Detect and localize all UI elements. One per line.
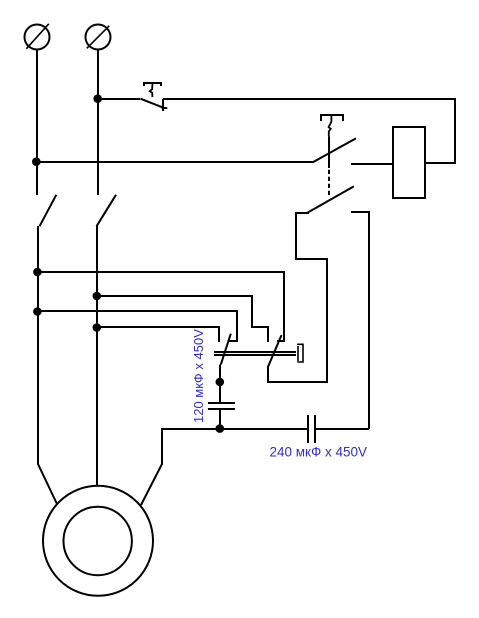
pushbutton SB2 actuator (stop button) [321,115,343,168]
node dot C1 bottom [216,424,225,433]
changeover switch SA1 blade pole 1 [221,334,231,365]
wire coil left to stop button [351,163,393,165]
feed line 1 to changeover right contact pole 2 [37,272,284,341]
feed line 4 to changeover left contact pole 1 [97,327,219,342]
main switch QS1 blade pole A [40,195,57,227]
terminal XS2 (circle with slash, phase B) [86,25,111,50]
pushbutton SB1 actuator (start button) [144,83,161,97]
node dot feed line 3 [33,307,42,316]
node dot feed line 1 [33,268,42,277]
relay coil K1 [393,127,425,198]
changeover linkage crossbar [214,344,303,362]
node dot on phase A at control feed [32,157,41,166]
svg-text:120 мкФ x 450V: 120 мкФ x 450V [191,329,206,423]
wire to start button SB1 [98,98,140,100]
relay contact K1.1 right contact and wire down to C2 [351,212,369,429]
terminal XS1 (circle with slash, phase A) [25,24,50,50]
relay contact K1.1 blade [308,186,354,212]
wire phase B lower to motor [96,226,98,486]
bottom wire right segment from C2 to relay contact drop [315,428,369,430]
wire SB1 to top right corner and down to coil [163,99,455,163]
changeover switch SA1 blade pole 2 [268,335,281,366]
motor M inner circle [63,507,131,575]
node dot feed line 2 [93,292,102,301]
wire phase A lower to motor [38,226,57,504]
pushbutton SB1 right contact [162,99,168,111]
capacitor C1 120uF plates [208,403,235,409]
pushbutton SB1 contact blade [140,99,163,108]
pushbutton SB2 blade [313,138,356,162]
feed line 3 to changeover right contact pole 1 [37,311,237,341]
motor M outer circle [43,486,153,596]
node dot above C1 [216,378,225,387]
capacitor C2 240uF plates [308,415,315,443]
node dot feed line 4 [93,323,102,332]
relay contact K1.1 left wire down to changeover pole 2 [268,213,327,382]
wire pole 1 blade down to capacitor C1 [219,365,221,403]
feed line 2 to changeover left contact pole 2 [97,296,268,342]
bottom wire left segment and motor right lead [141,429,308,505]
wire C1 to bottom wire [219,409,221,429]
wire phase B upper [97,50,99,196]
main switch QS1 blade pole B [97,195,117,227]
mechanical link dashed SB2 to contact K1.1 [328,170,330,197]
wire control line from phase A to SB2 [37,161,313,163]
wire phase A upper [36,50,38,196]
svg-text:240 мкФ x 450V: 240 мкФ x 450V [270,444,368,459]
node dot on phase B at start button feed [93,94,102,103]
